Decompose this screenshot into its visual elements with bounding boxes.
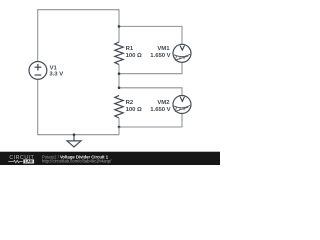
wire bottom node to VM2 bottom xyxy=(119,113,182,127)
voltmeter VM2 xyxy=(173,96,191,114)
svg-text:3.3 V: 3.3 V xyxy=(49,72,63,78)
svg-text:1.650 V: 1.650 V xyxy=(150,53,170,59)
wire R1 bottom lead to middle node xyxy=(118,65,120,88)
resistor R2 xyxy=(115,95,123,118)
junction at R1 bottom xyxy=(118,72,121,75)
svg-text:1.650 V: 1.650 V xyxy=(150,107,170,113)
wire branch to VM1 top xyxy=(119,26,182,44)
wire bottom rail to V1 xyxy=(38,79,119,135)
wire top horizontal from V1 to R1 column xyxy=(37,9,119,11)
junction at R2 bottom xyxy=(118,126,121,129)
wire middle node to VM1 bottom xyxy=(119,62,182,73)
resistor R1 xyxy=(115,42,123,65)
wire R2 top branch to VM2 xyxy=(119,88,182,96)
svg-text:VM2: VM2 xyxy=(157,100,170,106)
junction at R2 top xyxy=(118,87,121,90)
svg-text:R2: R2 xyxy=(126,100,134,106)
wire jog down from R2 bottom to bottom rail xyxy=(118,127,120,135)
wire vertical x=119 from top wire to R1 xyxy=(118,9,120,42)
svg-text:100 Ω: 100 Ω xyxy=(126,107,142,113)
ground xyxy=(67,135,81,147)
junction at ground xyxy=(73,133,76,136)
wire V1 top lead up left side xyxy=(37,10,39,62)
voltmeter VM1 xyxy=(173,44,191,62)
svg-text:http://circuitlab.com/c/8ab49c: http://circuitlab.com/c/8ab49c2h4anp/ xyxy=(42,159,112,164)
svg-text:100 Ω: 100 Ω xyxy=(126,53,142,59)
footer xyxy=(0,152,220,165)
voltage source V1 xyxy=(29,62,47,80)
svg-text:VM1: VM1 xyxy=(157,46,170,52)
svg-text:R1: R1 xyxy=(126,46,134,52)
svg-text:LAB: LAB xyxy=(25,160,33,164)
wire R2 bottom lead xyxy=(118,118,120,127)
junction at R1 top branch xyxy=(118,25,121,28)
